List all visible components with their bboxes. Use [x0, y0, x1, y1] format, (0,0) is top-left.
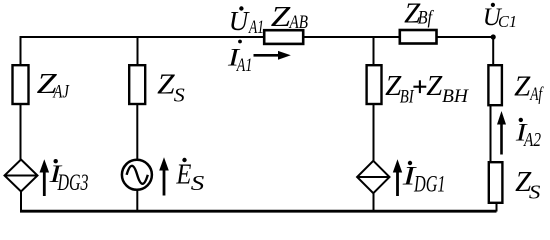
current arrow I_A1 — [254, 51, 291, 60]
svg-text:Z: Z — [426, 70, 443, 102]
wire branch2 middle — [136, 103, 138, 160]
svg-text:BH: BH — [442, 87, 470, 107]
svg-text:S: S — [174, 84, 185, 106]
label Z_S right — [515, 166, 540, 203]
label Z_Af — [514, 70, 544, 105]
resistor Z_S source branch — [129, 65, 145, 104]
wire right branch bottom — [496, 204, 498, 212]
svg-text:S: S — [191, 171, 205, 195]
label I_A2 — [515, 118, 541, 151]
svg-text:AJ: AJ — [52, 83, 70, 103]
resistor Z_AB — [264, 30, 303, 44]
wire left branch middle — [20, 103, 22, 161]
current arrow I_A2 — [497, 111, 506, 155]
wire branch3 top — [373, 36, 375, 65]
wire branch3 middle — [373, 103, 375, 162]
voltage source E_S circle — [122, 160, 152, 190]
current source I_DG3 diamond — [5, 160, 38, 192]
resistor Z_S right — [489, 162, 503, 203]
wire top bus A to C — [20, 36, 494, 38]
svg-text:C1: C1 — [498, 12, 517, 31]
resistor Z_AJ — [13, 65, 29, 104]
wire right branch top — [492, 37, 494, 64]
current arrow E_S — [159, 157, 169, 195]
svg-text:E: E — [176, 158, 192, 190]
wire left branch top — [20, 36, 22, 65]
wire bottom bus — [20, 210, 497, 213]
label Z_Bf — [404, 0, 435, 30]
label Z_S source branch — [157, 69, 185, 107]
label Z_BI+Z_BH — [385, 70, 470, 107]
svg-text:Z: Z — [514, 70, 531, 102]
node C1 junction dot — [491, 34, 496, 39]
label I_DG1 — [401, 161, 445, 197]
svg-text:BI: BI — [400, 87, 415, 107]
resistor Z_Bf — [400, 30, 437, 44]
svg-text:A2: A2 — [523, 129, 541, 151]
svg-text:DG1: DG1 — [413, 172, 445, 197]
label I_A1 — [227, 40, 253, 76]
svg-text:A1: A1 — [248, 18, 264, 38]
current arrow I_DG3 — [40, 159, 50, 196]
resistor Z_BI+Z_BH — [367, 65, 382, 104]
resistor Z_Af — [488, 65, 502, 105]
svg-text:Af: Af — [529, 85, 545, 105]
wire branch3 bottom — [373, 192, 375, 212]
label U_A1 — [229, 6, 264, 38]
label E_S — [176, 158, 205, 195]
label Z_AB — [271, 1, 308, 33]
sine symbol — [127, 166, 148, 184]
svg-text:AB: AB — [288, 13, 308, 33]
wire right branch middle — [490, 106, 492, 162]
current source I_DG1 diamond — [357, 161, 389, 193]
svg-text:S: S — [529, 181, 541, 203]
label Z_AJ — [37, 68, 70, 102]
wire branch2 bottom — [136, 190, 138, 212]
svg-text:DG3: DG3 — [57, 170, 89, 195]
svg-text:U: U — [229, 6, 250, 36]
svg-text:Bf: Bf — [418, 9, 435, 29]
svg-text:Z: Z — [271, 1, 292, 33]
wire branch2 top — [137, 36, 139, 65]
svg-text:A1: A1 — [235, 56, 252, 76]
label I_DG3 — [48, 159, 88, 195]
label U_C1 — [483, 3, 517, 31]
current arrow I_DG1 — [393, 159, 402, 196]
wire left branch bottom — [20, 190, 22, 212]
